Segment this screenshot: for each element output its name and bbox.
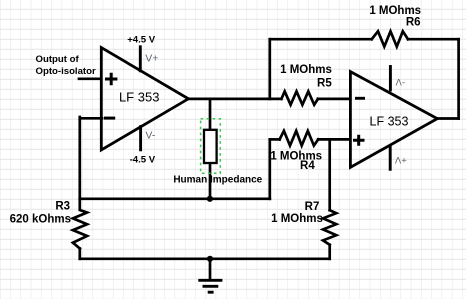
wire: vertical from R4 left down to node <box>268 139 271 198</box>
svg-text:Λ+: Λ+ <box>395 155 407 166</box>
ground bar 1 <box>198 279 222 282</box>
svg-text:Output of: Output of <box>36 54 80 65</box>
U2 top power pin <box>389 67 392 91</box>
U1 V+ pin <box>139 47 142 71</box>
svg-text:Human Impedance: Human Impedance <box>173 175 262 186</box>
U2 minus symbol <box>355 97 365 100</box>
junction node at human impedance bottom <box>207 196 213 202</box>
U1 plus symbol <box>105 73 117 85</box>
wire: R6 left vertical <box>268 39 271 99</box>
U1 minus symbol <box>104 117 115 120</box>
ground bar 2 <box>203 285 219 288</box>
wire: R4 to op-amp U2 plus <box>318 138 350 141</box>
svg-text:V+: V+ <box>145 53 158 65</box>
wire: input to op-amp U1 non-inverting <box>79 77 101 80</box>
wire: branch down to R7 <box>328 139 331 210</box>
svg-text:Opto-isolator: Opto-isolator <box>36 66 96 77</box>
resistor R7 <box>323 210 336 245</box>
ground stem <box>209 259 212 280</box>
resistor R3 <box>73 199 87 249</box>
wire: left vertical feedback <box>78 117 81 199</box>
junction node at ground <box>207 256 213 262</box>
svg-text:R7: R7 <box>305 201 320 213</box>
svg-text:LF 353: LF 353 <box>370 115 409 129</box>
wire: R5 to op-amp U2 <box>318 98 350 101</box>
op-amp U2 LF 353 <box>350 72 437 168</box>
U1 V- pin <box>139 127 142 150</box>
svg-text:+4.5 V: +4.5 V <box>127 34 156 45</box>
wire: R6 right to corner <box>408 38 459 41</box>
op-amp U1 LF 353 <box>101 48 188 150</box>
wire: right vertical down to U2 output <box>457 39 460 118</box>
wire: U2 output <box>437 117 459 120</box>
wire: input to op-amp U1 inverting <box>80 117 102 120</box>
resistor body: human impedance <box>204 130 217 163</box>
wire: R3 to bottom rail <box>78 249 81 259</box>
selection box (green dashed) around human impedance <box>201 119 221 174</box>
wire: R4 left corner <box>270 138 280 141</box>
U2 bottom power pin <box>389 146 392 169</box>
wire: R7 to bottom rail <box>328 245 331 259</box>
svg-text:620 kOhms: 620 kOhms <box>10 214 71 226</box>
ground bar 3 <box>208 291 214 294</box>
svg-text:1 MOhms: 1 MOhms <box>280 64 332 76</box>
svg-text:R3: R3 <box>55 201 70 213</box>
svg-text:Λ-: Λ- <box>396 78 406 89</box>
wire: U1 output to R5 <box>188 98 281 101</box>
svg-text:R6: R6 <box>406 17 421 29</box>
svg-text:LF 353: LF 353 <box>119 89 159 104</box>
svg-text:V-: V- <box>145 130 155 142</box>
resistor R5 <box>281 91 318 104</box>
svg-text:R4: R4 <box>300 160 315 172</box>
wire: top rail to R6 <box>270 38 372 41</box>
svg-text:1 MOhms: 1 MOhms <box>369 5 421 17</box>
resistor R6 <box>372 31 408 46</box>
wire: branch down to human impedance <box>209 99 212 130</box>
wire: human impedance to node <box>209 163 212 199</box>
wire: bottom rail <box>80 257 330 260</box>
svg-text:-4.5 V: -4.5 V <box>130 155 156 166</box>
U2 plus symbol <box>353 135 365 146</box>
wire: horizontal net at y=199 <box>80 197 270 200</box>
resistor R4 <box>280 131 319 146</box>
svg-text:1 MOhms: 1 MOhms <box>271 213 323 225</box>
svg-text:R5: R5 <box>317 78 332 90</box>
